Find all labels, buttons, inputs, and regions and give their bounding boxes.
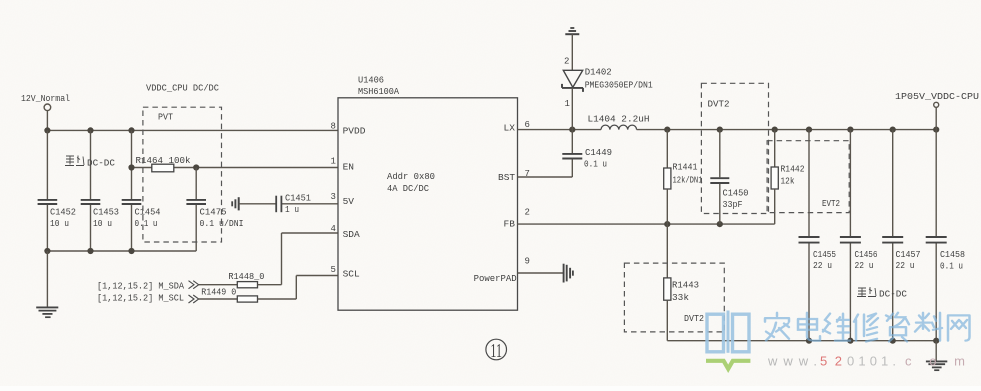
svg-text:R1448_0: R1448_0 — [228, 272, 264, 282]
svg-text:L1404 2.2uH: L1404 2.2uH — [588, 114, 650, 124]
svg-text:C1457: C1457 — [896, 250, 921, 260]
sheet number 11 — [486, 339, 507, 362]
svg-text:33k: 33k — [672, 293, 689, 303]
wire 12V input bus to pin 8 — [47, 129, 338, 131]
capacitor C1454 — [122, 130, 161, 251]
svg-text:1: 1 — [331, 156, 336, 166]
resistor R1449 — [201, 276, 338, 303]
wire FB net — [518, 221, 775, 227]
svg-text:22 u: 22 u — [855, 261, 874, 271]
家 — [765, 313, 789, 341]
watermark www.520101.com — [767, 354, 965, 369]
svg-text:2: 2 — [564, 57, 569, 67]
svg-text:1 u: 1 u — [285, 205, 299, 215]
维 — [823, 314, 850, 341]
capacitor C1450 — [710, 130, 748, 225]
svg-text:LX: LX — [504, 123, 516, 134]
text 靠近DC-DC right — [857, 287, 908, 300]
pin 1 EN — [331, 156, 355, 172]
svg-text:22 u: 22 u — [813, 261, 832, 271]
svg-text:1: 1 — [565, 99, 570, 109]
svg-text:C1454: C1454 — [135, 208, 161, 218]
resistor R1441 — [664, 130, 703, 225]
label VDDC_CPU DC/DC — [146, 84, 220, 94]
svg-text:SDA: SDA — [343, 229, 360, 240]
terminal 1P05V_VDDC-CPU — [895, 92, 979, 130]
svg-text:C1449: C1449 — [585, 148, 612, 158]
resistor R1442 — [771, 130, 804, 225]
svg-text:12k/DN1: 12k/DN1 — [673, 176, 703, 186]
svg-text:C1451: C1451 — [285, 193, 311, 203]
svg-text:C1475: C1475 — [200, 208, 227, 218]
capacitor C1475 — [186, 168, 243, 252]
svg-text:0.1 u: 0.1 u — [135, 219, 158, 229]
svg-text:33pF: 33pF — [723, 200, 743, 210]
ground left — [36, 251, 58, 317]
svg-text:[1,12,15.2] M_SCL: [1,12,15.2] M_SCL — [97, 294, 184, 304]
watermark text 家电维修资料网 — [765, 313, 970, 342]
svg-text:6: 6 — [525, 120, 530, 130]
svg-text:[1,12,15.2] M_SDA: [1,12,15.2] M_SDA — [97, 282, 185, 292]
text 靠近DC-DC left — [65, 156, 116, 169]
svg-text:DVT2: DVT2 — [684, 314, 704, 324]
svg-text:EN: EN — [343, 162, 354, 173]
svg-text:2: 2 — [525, 207, 530, 217]
wire left ground return bus — [44, 248, 196, 254]
junction dots on 12V bus — [44, 127, 134, 133]
wire output bus 1P05V — [664, 127, 939, 133]
wire LX net — [518, 127, 602, 133]
svg-text:3: 3 — [331, 192, 336, 202]
ground PowerPAD rotated — [518, 264, 573, 283]
svg-text:R1464 100k: R1464 100k — [136, 156, 191, 166]
svg-text:0.1 u: 0.1 u — [940, 262, 963, 272]
diode D1402 — [562, 57, 653, 130]
dashed box DVT2 bottom — [624, 263, 724, 332]
svg-text:BST: BST — [498, 172, 515, 183]
capacitor C1452 — [38, 130, 76, 251]
capacitor C1451 — [276, 193, 311, 215]
svg-text:0.1 u: 0.1 u — [584, 160, 607, 170]
svg-text:10 u: 10 u — [93, 219, 112, 229]
svg-text:PowerPAD: PowerPAD — [474, 274, 517, 284]
svg-text:C1458: C1458 — [940, 250, 965, 260]
svg-text:11: 11 — [490, 339, 502, 362]
watermark book icon — [706, 311, 750, 369]
svg-text:4A DC/DC: 4A DC/DC — [387, 184, 430, 194]
svg-text:1P05V_VDDC-CPU: 1P05V_VDDC-CPU — [895, 92, 979, 102]
svg-text:C1453: C1453 — [93, 208, 119, 218]
svg-text:C1455: C1455 — [813, 250, 836, 260]
wire BST net — [518, 176, 573, 178]
网 — [948, 315, 970, 340]
svg-text:PVT: PVT — [158, 113, 174, 123]
wire 5V net — [239, 203, 338, 205]
svg-text:PVDD: PVDD — [343, 126, 366, 137]
svg-text:MSH6100A: MSH6100A — [358, 87, 400, 97]
svg-text:22 u: 22 u — [896, 261, 915, 271]
svg-text:PMEG3050EP/DN1: PMEG3050EP/DN1 — [585, 81, 653, 91]
svg-text:U1406: U1406 — [358, 76, 384, 86]
capacitor C1457 — [882, 130, 920, 341]
svg-text:4: 4 — [331, 224, 336, 234]
svg-text:R1449 0: R1449 0 — [201, 287, 236, 297]
svg-text:C1452: C1452 — [50, 208, 76, 218]
料 — [915, 313, 942, 341]
svg-text:10 u: 10 u — [50, 219, 69, 229]
dashed box DVT2 top — [701, 83, 768, 213]
pin 6 LX — [504, 120, 530, 134]
off-page connector M_SDA — [97, 281, 237, 292]
capacitor C1453 — [81, 130, 119, 251]
svg-text:8: 8 — [331, 122, 336, 132]
inductor L1404 — [588, 114, 668, 129]
pin 7 BST — [498, 169, 530, 183]
pin 9 PowerPAD — [474, 257, 530, 285]
resistor R1448 — [228, 233, 338, 288]
svg-text:5: 5 — [331, 265, 336, 275]
capacitor C1456 — [840, 130, 878, 341]
svg-text:R1443: R1443 — [672, 281, 699, 291]
wire EN net to pin 1 — [128, 164, 338, 170]
pin 3 5V — [331, 192, 355, 207]
修 — [854, 314, 878, 342]
svg-text:DVT2: DVT2 — [708, 100, 730, 110]
svg-text:12V_Normal: 12V_Normal — [21, 94, 70, 104]
ground bottom right — [926, 341, 947, 371]
IC U1406 MSH6100A — [338, 76, 518, 311]
terminal 12V_Normal — [21, 94, 70, 130]
svg-text:D1402: D1402 — [585, 68, 612, 78]
capacitor C1449 — [562, 130, 612, 177]
svg-text:R1442: R1442 — [781, 165, 805, 175]
ground 5V bypass rotated — [232, 197, 239, 210]
resistor R1464 — [136, 156, 191, 172]
svg-text:5V: 5V — [343, 196, 355, 207]
pin 4 SDA — [331, 224, 361, 240]
svg-text:SCL: SCL — [343, 269, 360, 280]
svg-text:12k: 12k — [781, 177, 795, 187]
pin 5 SCL — [331, 265, 361, 279]
电 — [798, 313, 820, 341]
svg-text:C1456: C1456 — [855, 250, 878, 260]
ground top inverted — [565, 28, 579, 70]
svg-text:Addr 0x80: Addr 0x80 — [387, 172, 435, 182]
svg-text:DC-DC: DC-DC — [879, 290, 908, 300]
off-page connector M_SCL — [97, 294, 237, 304]
svg-text:EVT2: EVT2 — [822, 199, 840, 209]
dashed box PVT — [143, 107, 222, 242]
svg-text:9: 9 — [525, 257, 530, 267]
resistor R1443 — [664, 224, 699, 341]
svg-text:C1450: C1450 — [723, 189, 749, 199]
dashed box EVT2 — [767, 141, 849, 213]
资 — [886, 313, 909, 342]
pin 8 PVDD — [331, 122, 366, 137]
svg-text:FB: FB — [504, 218, 516, 229]
svg-text:VDDC_CPU DC/DC: VDDC_CPU DC/DC — [146, 84, 220, 94]
pin 2 FB — [504, 207, 530, 229]
wire right ground bus — [667, 338, 939, 344]
svg-text:R1441: R1441 — [673, 163, 698, 173]
capacitor C1455 — [799, 130, 837, 341]
svg-text:DC-DC: DC-DC — [87, 159, 116, 169]
capacitor C1458 — [926, 130, 965, 341]
